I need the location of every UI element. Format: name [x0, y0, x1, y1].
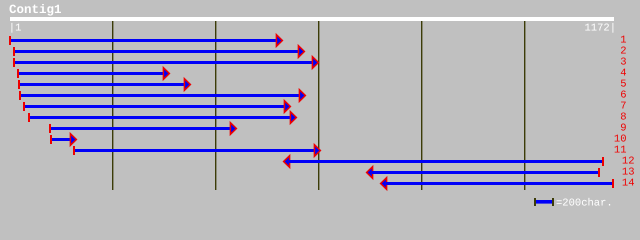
ruler separator line [10, 17, 614, 21]
read arrow row 7 (forward) [23, 101, 290, 113]
read arrow row 13 (reverse) [367, 167, 600, 179]
svg-text:Contig1: Contig1 [9, 3, 62, 17]
svg-text:14: 14 [622, 178, 635, 190]
legend scale bar right tick [552, 198, 554, 206]
read arrow row 9 (forward) [49, 123, 236, 135]
legend scale bar line [536, 200, 552, 204]
svg-text:|1: |1 [9, 23, 22, 35]
read arrow row 2 (forward) [13, 46, 304, 58]
read arrow row 10 (forward) [50, 134, 76, 146]
read arrow row 5 (forward) [18, 79, 190, 91]
grid line 3 [318, 21, 319, 190]
grid line 5 [524, 21, 525, 190]
svg-text:1172|: 1172| [584, 23, 616, 35]
read arrow row 6 (forward) [19, 90, 305, 102]
grid line 2 [215, 21, 216, 190]
read arrow row 1 (forward) [9, 35, 282, 47]
read arrow row 11 (forward) [73, 145, 320, 157]
svg-text:=200char.: =200char. [556, 198, 613, 210]
grid line 1 [112, 21, 113, 190]
read arrow row 12 (reverse) [284, 156, 604, 168]
grid line 4 [421, 21, 422, 190]
read arrow row 3 (forward) [13, 57, 318, 69]
read arrow row 8 (forward) [28, 112, 296, 124]
read arrow row 4 (forward) [17, 68, 169, 80]
legend scale bar left tick [534, 198, 536, 206]
read arrow row 14 (reverse) [381, 178, 614, 190]
